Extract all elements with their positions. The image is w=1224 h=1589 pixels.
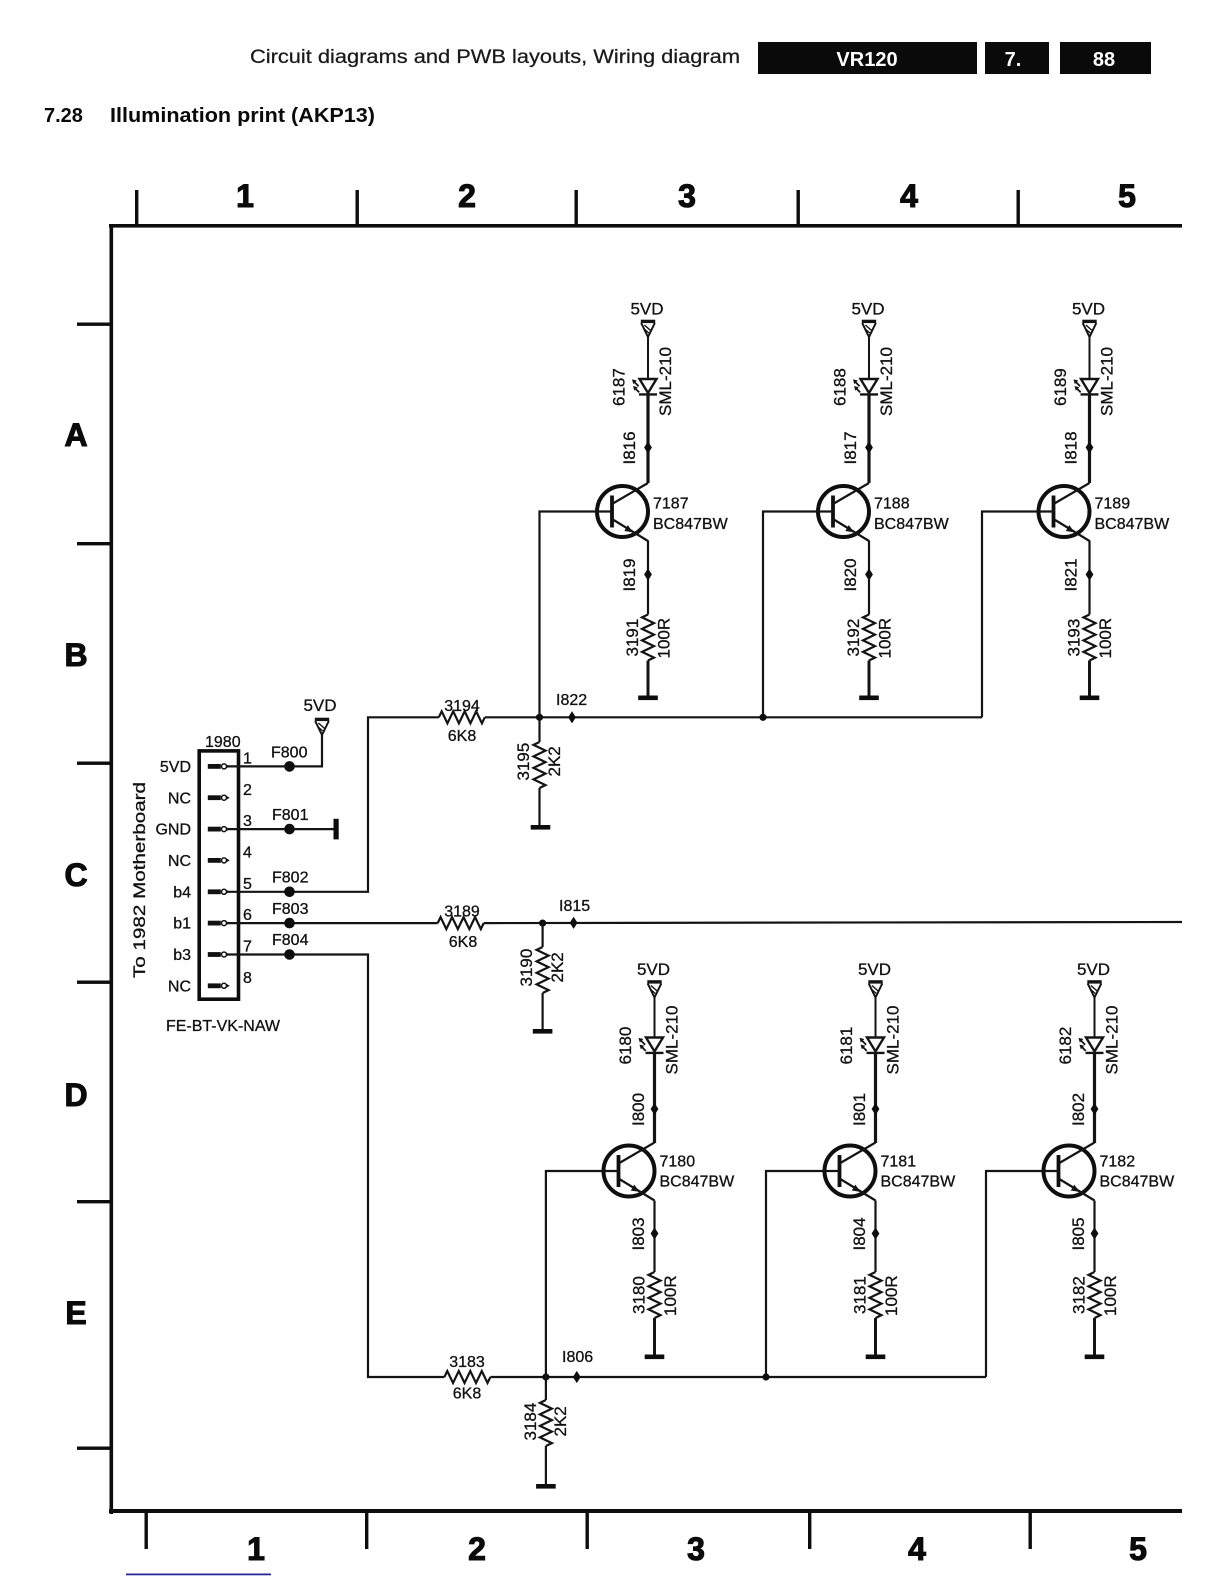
svg-text:BC847BW: BC847BW [1100,1174,1176,1191]
pin 4 symbol [208,858,230,863]
svg-text:2K2: 2K2 [548,952,567,982]
svg-text:BC847BW: BC847BW [660,1174,736,1191]
svg-text:100R: 100R [882,1275,901,1316]
svg-text:100R: 100R [655,618,674,659]
node I821 [1062,558,1094,591]
svg-text:D: D [64,1077,87,1113]
wire LED to collector of 7181 [874,1053,877,1143]
svg-text:NC: NC [168,978,191,995]
svg-text:I801: I801 [850,1093,869,1126]
svg-text:88: 88 [1093,49,1115,71]
node I803 [629,1217,658,1250]
svg-text:NC: NC [168,790,191,807]
svg-text:7.: 7. [1005,49,1022,71]
svg-text:5VD: 5VD [858,960,891,979]
svg-text:2: 2 [243,782,252,799]
svg-text:7188: 7188 [874,496,910,513]
wire 5VD to LED 6189 [1089,337,1091,379]
pin name b1 [173,916,191,933]
wire base feed to 7182 [986,1171,1059,1377]
resistor 3180 100R [630,1272,681,1318]
svg-text:5VD: 5VD [637,960,670,979]
svg-text:I805: I805 [1069,1217,1088,1250]
transistor 7187 BC847BW [597,483,729,541]
transistor 7180 BC847BW [604,1143,736,1201]
pin name b3 [173,947,191,964]
top grid ticks [135,190,1020,224]
LED 6181 SML-210 [837,1006,903,1075]
svg-text:100R: 100R [661,1275,680,1316]
wire LED to collector of 7180 [653,1053,656,1143]
svg-text:A: A [64,417,87,453]
frame bottom border [109,1509,1182,1513]
svg-text:7181: 7181 [881,1154,917,1171]
left grid ticks [77,323,111,1450]
svg-text:5VD: 5VD [1072,300,1105,319]
svg-text:6K8: 6K8 [449,934,478,951]
svg-text:I800: I800 [629,1093,648,1126]
header text [250,47,740,68]
ferrite bead F802 [272,870,309,898]
svg-text:1980: 1980 [205,734,241,751]
ferrite bead F801 [272,807,309,834]
svg-text:I804: I804 [850,1217,869,1250]
svg-text:To 1982 Motherboard: To 1982 Motherboard [130,782,149,978]
svg-text:F801: F801 [272,807,309,824]
svg-text:Circuit diagrams and PWB layou: Circuit diagrams and PWB layouts, Wiring… [250,47,740,68]
wire 5VD to LED 6180 [654,998,656,1038]
svg-text:Illumination print (AKP13): Illumination print (AKP13) [110,105,375,127]
svg-text:3: 3 [243,813,252,830]
wire 5VD to LED 6181 [875,998,877,1038]
svg-text:BC847BW: BC847BW [1095,516,1171,533]
node I805 [1069,1217,1098,1250]
svg-text:I820: I820 [841,558,860,591]
ground (3190) [533,1029,553,1034]
chapter box 7. [985,42,1049,74]
svg-text:5VD: 5VD [303,696,336,715]
power 5VD (7189 cell) [1072,300,1105,338]
svg-text:I806: I806 [562,1349,593,1366]
svg-text:5VD: 5VD [851,300,884,319]
svg-text:6182: 6182 [1056,1027,1075,1065]
wire 5VD to LED 6188 [868,337,870,379]
power symbol 5VD (connector) [303,696,336,735]
svg-text:7189: 7189 [1095,496,1131,513]
ground (7181 cell) [866,1355,886,1360]
svg-text:3183: 3183 [449,1354,485,1371]
svg-text:2: 2 [468,1531,486,1567]
svg-text:F803: F803 [272,901,309,918]
resistor 3194 6K8 [439,698,485,745]
pin name 5VD [160,759,191,776]
wire 5VD to LED 6182 [1094,998,1096,1038]
power 5VD (7188 cell) [851,300,884,338]
wire emitter of 7181 to resistor 3181 [874,1201,876,1273]
svg-text:6: 6 [243,907,252,924]
ground (7180 cell) [645,1355,665,1360]
svg-text:3184: 3184 [521,1403,540,1441]
ferrite bead F803 [272,901,309,929]
svg-text:1: 1 [247,1531,265,1567]
node I820 [841,558,873,591]
svg-text:8: 8 [243,970,252,987]
node I819 [620,558,652,591]
svg-text:C: C [64,857,87,893]
wire 3180 to ground [653,1318,656,1355]
svg-text:100R: 100R [1101,1275,1120,1316]
frame top border [109,224,1182,228]
svg-text:1: 1 [243,751,252,768]
svg-text:FE-BT-VK-NAW: FE-BT-VK-NAW [166,1018,281,1035]
blue footer underline [126,1574,271,1576]
wire LED to collector of 7182 [1093,1053,1096,1143]
svg-text:3: 3 [678,178,696,214]
svg-text:6181: 6181 [837,1027,856,1065]
wire 5VD to LED 6187 [647,337,649,379]
pin 5 symbol [208,889,230,894]
power 5VD (7180 cell) [637,960,670,998]
LED 6187 SML-210 [610,347,676,416]
svg-text:7182: 7182 [1100,1154,1136,1171]
svg-text:I816: I816 [620,431,639,464]
svg-text:SML-210: SML-210 [884,1006,903,1075]
wire base feed to 7181 [766,1171,840,1377]
junction b3/3184 [542,1373,549,1380]
svg-text:b4: b4 [173,884,191,901]
transistor 7188 BC847BW [818,483,950,541]
svg-text:4: 4 [243,845,252,862]
svg-text:5VD: 5VD [630,300,663,319]
svg-text:SML-210: SML-210 [1103,1006,1122,1075]
resistor 3191 100R [623,615,674,661]
svg-text:BC847BW: BC847BW [653,516,729,533]
svg-text:3189: 3189 [444,904,480,921]
power 5VD (7187 cell) [630,300,663,338]
svg-text:7187: 7187 [653,496,689,513]
ground (7189 cell) [1080,696,1100,701]
wire 3192 to ground [868,661,871,696]
pin 1 symbol [208,764,230,769]
ground (3195) [531,825,551,830]
pin name NC (pin4) [168,853,191,870]
svg-text:2K2: 2K2 [551,1406,570,1436]
svg-text:3191: 3191 [623,619,642,657]
svg-text:I802: I802 [1069,1093,1088,1126]
resistor 3189 6K8 [438,904,484,952]
wire b1 to right edge [484,922,1182,923]
section title [44,105,375,127]
wire 3181 to ground [874,1318,877,1355]
svg-text:3194: 3194 [444,698,480,715]
resistor 3182 100R [1070,1272,1121,1318]
svg-text:100R: 100R [876,618,895,659]
top grid numbers [236,178,1136,214]
wire 3191 to ground [647,661,650,696]
pin numbers 1-8 [243,751,252,987]
wire emitter of 7189 to resistor 3193 [1088,541,1090,615]
svg-text:I819: I819 [620,558,639,591]
svg-text:4: 4 [908,1531,926,1567]
svg-text:5: 5 [243,876,252,893]
transistor 7182 BC847BW [1044,1143,1176,1201]
power 5VD (7182 cell) [1077,960,1110,998]
node I822 [556,692,587,723]
LED 6188 SML-210 [831,347,897,416]
pin 7 symbol [208,952,230,957]
svg-text:I817: I817 [841,431,860,464]
pin name b4 [173,884,191,901]
wire base feed to 7180 [546,1171,619,1377]
model box VR120 [758,42,977,74]
ground (7188 cell) [859,696,879,701]
label FE-BT-VK-NAW [166,1018,281,1035]
node I817 [841,431,873,464]
ferrite bead F804 [272,932,309,960]
resistor 3183 6K8 [444,1354,490,1403]
pin name NC (pin2) [168,790,191,807]
pin name GND [155,822,191,839]
svg-text:I815: I815 [559,898,590,915]
svg-text:3193: 3193 [1065,619,1084,657]
resistor 3193 100R [1065,615,1116,661]
svg-text:6187: 6187 [610,368,629,406]
svg-text:6K8: 6K8 [453,1386,482,1403]
wire pin7 to corner down to bottom bus [228,955,444,1378]
svg-text:3180: 3180 [630,1276,649,1314]
svg-text:b3: b3 [173,947,191,964]
pin 6 symbol [208,921,230,926]
page box 88 [1060,42,1151,74]
LED 6189 SML-210 [1051,347,1117,416]
svg-text:6180: 6180 [616,1027,635,1065]
ferrite bead F800 [271,745,308,772]
svg-text:F802: F802 [272,870,309,887]
wire base feed to 7187 [540,512,613,718]
svg-text:3195: 3195 [514,743,533,781]
wire pin6 b1 long bus [228,922,438,924]
label To 1982 Motherboard [130,782,149,978]
resistor 3190 2K2 [517,923,567,1029]
svg-text:5: 5 [1118,178,1136,214]
node I806 [562,1349,593,1383]
svg-text:2K2: 2K2 [545,746,564,776]
svg-text:SML-210: SML-210 [663,1006,682,1075]
node I802 [1069,1093,1098,1126]
ground (7187 cell) [638,696,658,701]
pin 3 symbol [208,827,230,832]
svg-text:5VD: 5VD [160,759,191,776]
svg-text:7.28: 7.28 [44,105,83,127]
svg-text:SML-210: SML-210 [1098,347,1117,416]
svg-text:SML-210: SML-210 [877,347,896,416]
ground (7182 cell) [1085,1355,1105,1360]
resistor 3192 100R [844,615,895,661]
junction b1/3190 [539,920,546,927]
connector 1980 body [199,734,240,999]
wire emitter of 7187 to resistor 3191 [647,541,649,615]
svg-text:F800: F800 [271,745,308,762]
svg-text:7180: 7180 [660,1154,696,1171]
node I816 [620,431,652,464]
wire pin5 to corner up to bus [228,717,439,892]
svg-text:I821: I821 [1062,558,1081,591]
svg-text:6188: 6188 [831,368,850,406]
node I815 [559,898,590,929]
svg-text:GND: GND [155,822,191,839]
junction bus/7188 base [759,714,766,721]
wire base feed to 7189 [982,512,1054,718]
junction bus/7181 base [762,1373,769,1380]
svg-text:2: 2 [458,178,476,214]
wire emitter of 7188 to resistor 3192 [868,541,870,615]
power 5VD (7181 cell) [858,960,891,998]
svg-text:3190: 3190 [517,949,536,987]
svg-text:NC: NC [168,853,191,870]
svg-text:7: 7 [243,939,252,956]
wire base feed to 7188 [763,512,833,718]
wire 3193 to ground [1088,661,1091,696]
node I804 [850,1217,879,1250]
pin 2 symbol [208,795,230,800]
bottom grid numbers [247,1531,1147,1567]
svg-text:I803: I803 [629,1217,648,1250]
svg-text:B: B [64,637,87,673]
svg-text:4: 4 [900,178,918,214]
svg-text:3182: 3182 [1070,1276,1089,1314]
wire LED to collector of 7187 [646,394,649,483]
svg-text:b1: b1 [173,916,191,933]
resistor 3184 2K2 [521,1377,570,1484]
wire emitter of 7182 to resistor 3182 [1093,1201,1095,1273]
wire LED to collector of 7188 [867,394,870,483]
wire pin3 to termination [228,828,334,830]
LED 6182 SML-210 [1056,1006,1122,1075]
wire LED to collector of 7189 [1088,394,1091,483]
left grid letters [64,417,87,1331]
svg-text:BC847BW: BC847BW [881,1174,957,1191]
pin 8 symbol [208,983,230,988]
wire emitter of 7180 to resistor 3180 [653,1201,655,1273]
node I818 [1062,431,1094,464]
LED 6180 SML-210 [616,1006,682,1075]
svg-text:3181: 3181 [851,1276,870,1314]
wire 3182 to ground [1093,1318,1096,1355]
svg-text:6189: 6189 [1051,368,1070,406]
pin name NC (pin8) [168,978,191,995]
resistor 3195 2K2 [514,717,564,825]
svg-text:5: 5 [1129,1531,1147,1567]
wire b4 bus [485,716,982,718]
svg-text:E: E [65,1295,86,1331]
svg-text:I822: I822 [556,692,587,709]
ground termination bar [334,819,339,840]
transistor 7181 BC847BW [825,1143,957,1201]
svg-text:VR120: VR120 [836,49,897,71]
ground (3184) [536,1484,556,1489]
node I801 [850,1093,879,1126]
frame left border [110,224,114,1514]
svg-text:BC847BW: BC847BW [874,516,950,533]
node I800 [629,1093,658,1126]
resistor 3181 100R [851,1272,902,1318]
wire pin1 to F800 to corner [228,735,322,766]
transistor 7189 BC847BW [1039,483,1171,541]
junction b4/3195 [536,714,543,721]
svg-text:1: 1 [236,178,254,214]
bottom grid ticks [145,1513,1032,1549]
svg-text:I818: I818 [1062,431,1081,464]
svg-text:6K8: 6K8 [448,728,477,745]
svg-text:100R: 100R [1096,618,1115,659]
svg-text:3192: 3192 [844,619,863,657]
svg-text:3: 3 [687,1531,705,1567]
svg-text:F804: F804 [272,932,309,949]
wire b3 bottom bus [490,1376,986,1378]
svg-text:5VD: 5VD [1077,960,1110,979]
svg-text:SML-210: SML-210 [656,347,675,416]
